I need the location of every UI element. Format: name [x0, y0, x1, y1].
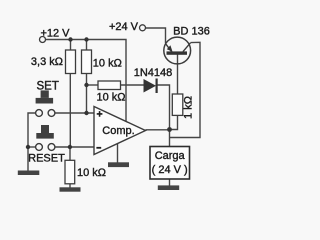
svg-text:SET: SET [37, 80, 59, 92]
svg-text:+24 V: +24 V [109, 21, 139, 33]
node left rail / RESET [26, 145, 30, 149]
wire plus input [55, 112, 94, 114]
wire R3 right lead to diode anode [121, 84, 144, 86]
svg-text:10 kΩ: 10 kΩ [96, 92, 125, 104]
svg-text:3,3 kΩ: 3,3 kΩ [31, 56, 63, 68]
resistor R3 10k horizontal body [98, 81, 121, 90]
wire R2 bottom lead to plus-input node [86, 74, 88, 114]
node on +12V rail at R1 [68, 37, 72, 41]
svg-text:RESET: RESET [28, 153, 65, 165]
svg-text:10 kΩ: 10 kΩ [93, 57, 122, 69]
svg-text:10 kΩ: 10 kΩ [77, 167, 106, 179]
node comparator output [167, 127, 172, 132]
wire +12V rail and V+ supply to comparator [46, 40, 127, 123]
wire R1 bottom lead to minus-input node [69, 74, 71, 148]
wire comparator output [146, 129, 170, 131]
wire load bottom lead [169, 179, 171, 186]
diode D1 1N4148 [144, 79, 158, 94]
ground below R5 [60, 187, 81, 191]
transistor Q1 BD136 [164, 37, 191, 64]
wire +24V to transistor emitter [146, 28, 166, 43]
pushbutton RESET [36, 125, 55, 150]
wire transistor base lead [177, 55, 179, 95]
terminal +12V [40, 37, 46, 43]
terminal +24V [140, 25, 146, 31]
node plus input [84, 111, 88, 115]
wire collector to right rail and down to load node [170, 42, 201, 137]
wire R2 top lead [86, 40, 88, 51]
wire comparator V- to ground [117, 144, 119, 163]
resistor R5 10k body [65, 160, 75, 184]
node R2/R3 junction [84, 83, 88, 87]
wire output node down to load [169, 130, 171, 147]
node on +12V rail at R2 [84, 37, 88, 41]
op-amp comparator [94, 107, 146, 155]
svg-text:+: + [97, 109, 103, 121]
ground below load [158, 185, 179, 190]
pushbutton SET [36, 90, 55, 116]
node minus input [68, 145, 72, 149]
svg-text:Carga: Carga [155, 150, 186, 162]
wire RESET left contact [28, 146, 36, 148]
svg-text:( 24 V ): ( 24 V ) [152, 164, 188, 176]
resistor R1 3,3k body [66, 50, 76, 74]
resistor R2 10k body [82, 50, 92, 74]
wire R5 top lead [69, 147, 71, 160]
svg-text:1N4148: 1N4148 [134, 67, 173, 79]
wire minus input [56, 146, 95, 148]
ground left rail [18, 171, 40, 176]
svg-text:1 kΩ: 1 kΩ [183, 96, 195, 119]
svg-text:+12 V: +12 V [40, 27, 70, 39]
svg-text:BD 136: BD 136 [173, 25, 210, 37]
label minus input [96, 147, 101, 149]
wire SET left contact to left rail and ground [28, 113, 36, 171]
load box Carga [150, 147, 190, 180]
wire R4 bottom lead to output node [170, 115, 178, 129]
wire R3 left lead [87, 84, 99, 86]
wire diode cathode to output node [158, 85, 170, 130]
svg-text:Comp.: Comp. [102, 125, 134, 137]
ground below comparator [108, 162, 129, 167]
wire R5 bottom lead [69, 184, 71, 188]
wire R1 top lead [70, 40, 72, 51]
resistor R4 1k body [172, 94, 183, 115]
